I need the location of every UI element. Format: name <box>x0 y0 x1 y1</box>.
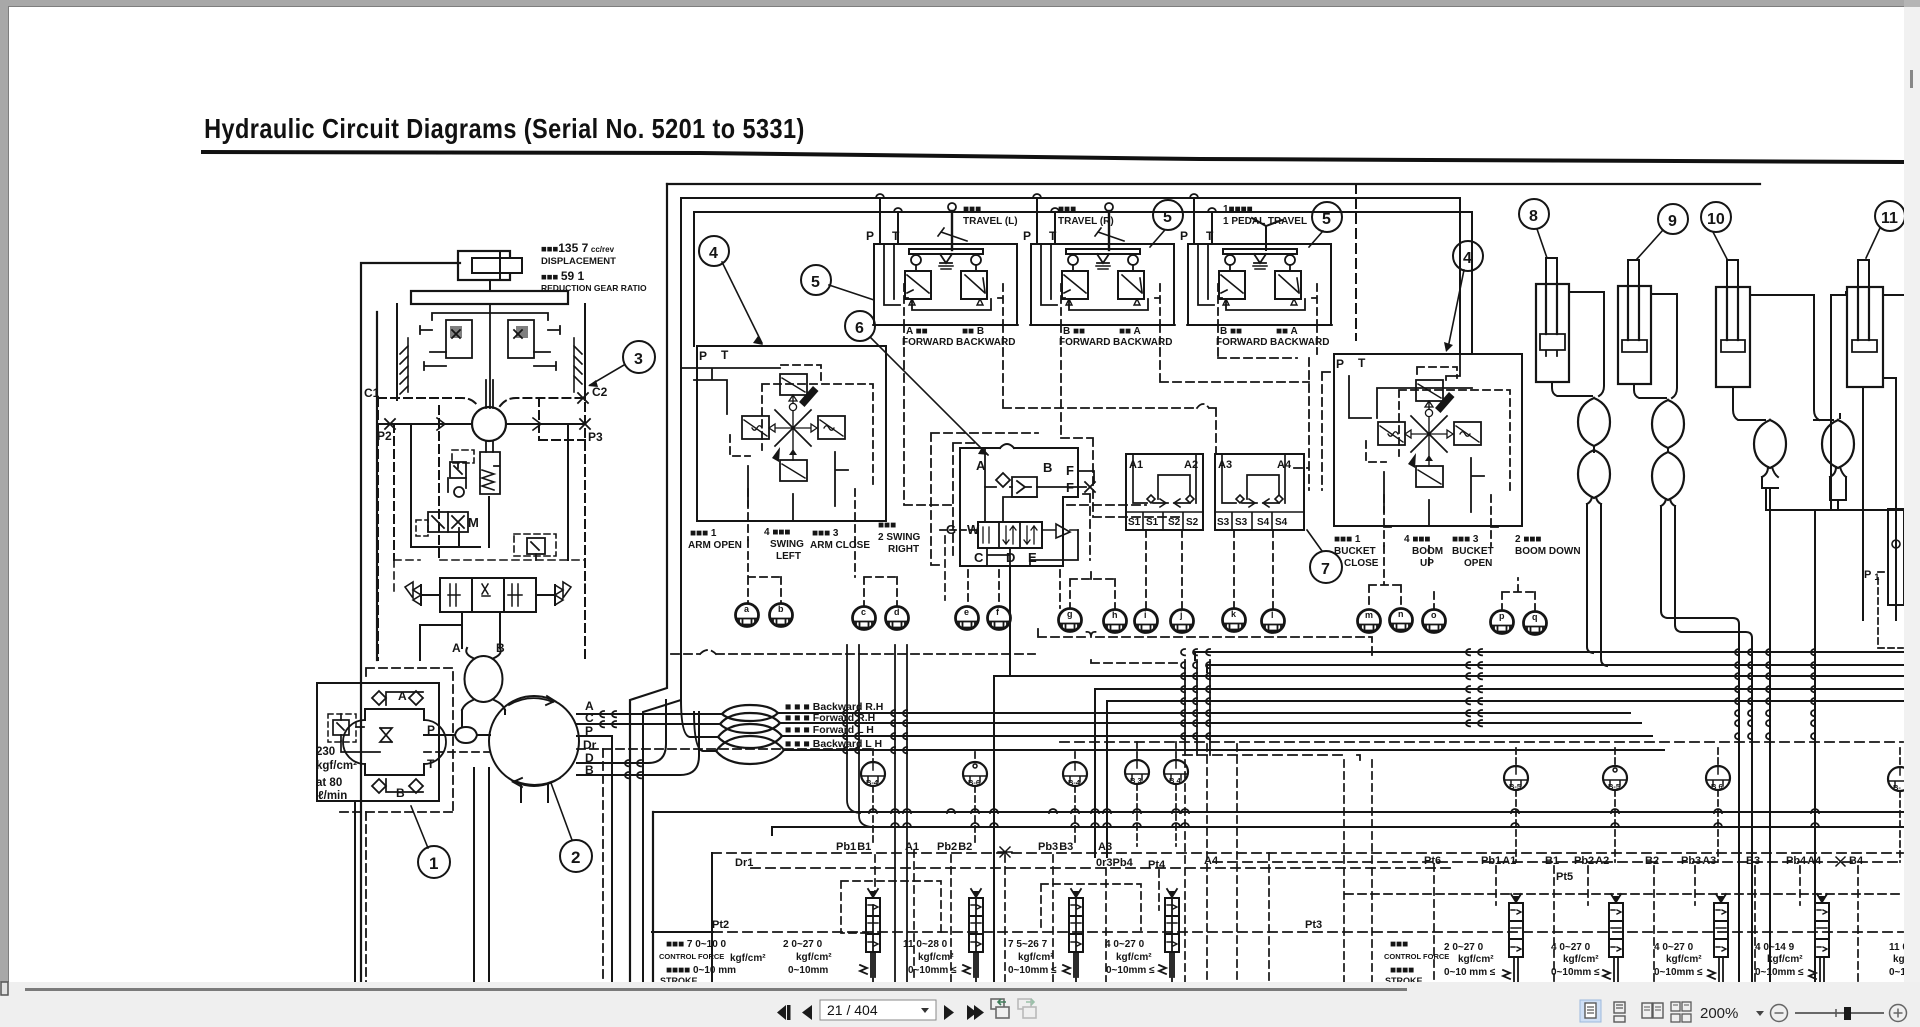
solenoid arrow <box>1042 524 1078 538</box>
cylinder 9 pipes <box>1634 294 1677 398</box>
coupler B-4a <box>861 762 885 787</box>
hose 9b <box>1652 452 1684 500</box>
hose 10 link <box>1762 467 1846 510</box>
balloon 11 <box>1866 201 1905 258</box>
swing motor M3 <box>472 407 506 441</box>
inner dashed rail <box>751 867 1450 869</box>
coupler c <box>853 607 876 630</box>
arm/swing pilot box <box>697 346 886 521</box>
dashed corner to item4 right <box>1355 184 1357 340</box>
coupler g <box>1059 609 1082 632</box>
shuttle box 2 <box>1215 454 1304 530</box>
hose 10a <box>1754 420 1786 468</box>
travel R mechanism <box>1062 249 1144 305</box>
travel R joystick <box>1108 211 1110 250</box>
S port cells box2 <box>1215 512 1304 530</box>
spec column 5 <box>1105 939 1155 976</box>
gear pump square <box>343 709 446 775</box>
swivel out labels <box>583 699 597 777</box>
column dashed drops right <box>1207 744 1903 982</box>
balloon 7 <box>1307 530 1322 551</box>
solenoid valve SV <box>428 512 468 538</box>
travel R dashed enclosure <box>1030 284 1175 348</box>
coupler k <box>1223 609 1246 632</box>
coupler drop wires a-b <box>748 540 781 603</box>
coupler n <box>1390 609 1413 632</box>
scrollbar corner box bottom-left <box>1 982 8 995</box>
continuous mode icon <box>1614 1002 1625 1022</box>
wire C forward RH <box>577 723 1641 724</box>
hose 9a <box>1652 400 1684 448</box>
cylinder 11 <box>1847 260 1883 387</box>
C D wires <box>987 548 1010 566</box>
bulge pump P <box>455 727 490 743</box>
bus wire 1 <box>1195 652 1903 660</box>
coupler o <box>1423 610 1446 633</box>
inner dashed enclosure <box>1366 367 1510 495</box>
coupler i <box>1135 610 1158 633</box>
A wire down <box>985 448 1037 522</box>
hose bulge A-B <box>462 648 505 710</box>
pilot route travel R A <box>1061 348 1182 517</box>
dashed enclosure right <box>1083 494 1090 560</box>
travel L mechanism <box>905 249 987 305</box>
label bucket close <box>1334 534 1379 569</box>
vertical feed W <box>1095 689 1107 857</box>
wire pump P out <box>424 734 455 736</box>
flow chevrons on P2-P3 <box>437 418 541 430</box>
lower dashed enclosure <box>1384 495 1501 546</box>
check valve <box>985 473 1012 487</box>
dashed vertical P2 <box>393 424 395 560</box>
throttle X <box>380 728 392 742</box>
row3 stubs <box>1516 748 1900 862</box>
mounting plate <box>411 291 568 304</box>
pedal travel box <box>1188 244 1331 325</box>
G dashed wire <box>940 529 978 531</box>
title: Hydraulic Circuit Diagrams (Serial No. 5201 to 5331) <box>203 114 1905 162</box>
coupler drop wires m-o <box>1369 546 1434 609</box>
pressure valve Pb3 <box>1063 889 1083 977</box>
right risers from cyl9 <box>1739 510 1770 982</box>
pressure valve right 4 <box>1809 894 1829 982</box>
zoom slider <box>1795 1012 1884 1014</box>
bus dashed drain <box>1060 741 1903 743</box>
dashed box pump relief <box>328 714 356 742</box>
balloon 4 right <box>1448 270 1464 348</box>
shuttle 2 internals <box>1222 454 1285 503</box>
pressure valve Pb1 <box>860 889 880 977</box>
prev page button <box>802 1005 812 1020</box>
coupler drop wires g-h <box>1070 570 1115 609</box>
hose 8b <box>1578 450 1610 498</box>
pilot feed wires <box>681 368 780 414</box>
vertical feed E dashed <box>1059 570 1061 608</box>
dashed rail lower right <box>1345 893 1903 895</box>
hose 8 link <box>1587 446 1607 666</box>
E wire <box>1030 530 1078 566</box>
label boom up <box>1404 534 1443 569</box>
pressure valve right 1 <box>1503 894 1523 982</box>
swivel arrow bottom <box>513 778 560 787</box>
spec column 4 <box>1008 939 1057 976</box>
solid vertical left inner <box>410 424 412 547</box>
aux relief valve <box>448 462 466 497</box>
hose lens C <box>720 713 780 733</box>
swivel circle <box>489 696 579 786</box>
balloon 8 <box>1519 199 1549 258</box>
coupler j <box>1171 610 1194 633</box>
bus wire 2 <box>1207 665 1903 672</box>
rail drop item4 left <box>681 198 694 346</box>
page number input box <box>820 1000 936 1020</box>
bus dashed lower <box>1183 755 1360 760</box>
hose lens FL <box>718 724 782 748</box>
P1 component right edge <box>1864 509 1904 648</box>
spec column r2 <box>1551 942 1600 978</box>
column dashed drops left <box>875 760 1185 982</box>
pilot route travel L A <box>904 348 1146 505</box>
shuttle 1 internals <box>1133 454 1196 503</box>
C2 cross mark <box>578 393 588 403</box>
horizontal scrollbar thumb <box>25 988 1407 991</box>
coupler bracket dashed row <box>1038 627 1372 663</box>
single page mode (active) <box>1580 1000 1601 1022</box>
balloon 10 <box>1701 202 1731 259</box>
coupler B-3 <box>1125 760 1149 785</box>
manifold box left edge <box>652 812 654 982</box>
swivel feed lines <box>462 710 505 726</box>
swivel arrow top <box>509 696 555 705</box>
displacement note text <box>541 241 647 293</box>
pedal mechanism <box>1219 249 1301 305</box>
facing continuous icon <box>1671 1002 1691 1022</box>
top connector C3a <box>458 251 522 280</box>
zoom out button <box>1771 1005 1788 1022</box>
row2 stubs <box>873 742 1176 846</box>
pump dashed box <box>340 668 453 812</box>
dashed pilot line C1-C2 <box>378 398 583 406</box>
lower dashed enclosure <box>748 489 865 540</box>
hatched wall right <box>574 338 582 392</box>
dashed vertical inner left <box>438 406 440 560</box>
label swing left <box>764 527 804 562</box>
balloon 5 (left, travel L) <box>801 265 874 300</box>
balloon 4 (left) <box>699 236 763 345</box>
label row rail right <box>1213 861 1903 863</box>
wire pump T dashed <box>424 751 489 753</box>
spec column r4 <box>1755 942 1804 978</box>
coupler B-6 <box>963 762 987 787</box>
wire drain bottom <box>411 497 489 547</box>
svg-text:21 / 404: 21 / 404 <box>827 1002 878 1018</box>
wire Dr dashed <box>577 748 873 750</box>
spec column 3 <box>903 939 957 976</box>
pedal name <box>1223 204 1307 227</box>
pilot cross mechanism <box>1378 380 1481 487</box>
wire A backward RH <box>577 713 1630 714</box>
bus wire 4 <box>1095 689 1903 696</box>
P2 cross mark <box>385 419 395 429</box>
spec column r5 <box>1889 942 1920 978</box>
pilot cross mechanism <box>742 374 845 481</box>
pedal port labels <box>1216 326 1329 348</box>
pilot route travel L B <box>1003 348 1216 454</box>
pedal dashed enclosure <box>1187 284 1332 348</box>
pressure valve Pb4 <box>1159 889 1179 977</box>
wire P down <box>577 736 612 982</box>
coupler q <box>1524 612 1547 635</box>
rail drop pedal travel <box>1194 198 1212 244</box>
rail drop travel R <box>1037 198 1055 244</box>
spool pilot dashes <box>394 560 585 595</box>
rail bumps <box>876 194 1216 212</box>
balloon 6 <box>845 311 989 455</box>
pedal lever <box>1252 218 1282 250</box>
left bundle verticals <box>355 768 489 982</box>
bottom wires <box>748 452 848 520</box>
dashed vertical inner right <box>539 398 585 440</box>
cylinder 10 <box>1716 260 1750 387</box>
coupler h <box>1104 610 1127 633</box>
dashed box make-up <box>514 534 556 556</box>
boom/bucket pilot box <box>1334 354 1522 526</box>
make-up relief right <box>527 538 545 560</box>
label bucket open <box>1452 534 1494 569</box>
label backward RH <box>785 701 883 750</box>
dashed box around aux relief <box>452 450 474 463</box>
hose 8a <box>1578 398 1610 446</box>
coupler drop wires p-q <box>1502 578 1535 611</box>
pump relief small <box>333 714 349 741</box>
bottom wires <box>1384 458 1484 526</box>
balloon 2 <box>551 783 592 872</box>
svg-text:200%: 200% <box>1700 1005 1738 1022</box>
cylinder 10 pipes <box>1733 292 1846 420</box>
coupler d <box>886 607 909 630</box>
travel R name <box>1058 204 1114 227</box>
cylinder 8 <box>1536 258 1569 382</box>
control force column right <box>1384 939 1449 986</box>
travel R box <box>1031 244 1174 325</box>
control force column left <box>659 939 766 986</box>
column solid drops left <box>873 645 1172 982</box>
pump outer box <box>317 683 439 801</box>
inner dashed enclosure <box>730 365 873 489</box>
pressure valve right 2 <box>1603 894 1623 982</box>
coupler B-5b <box>1603 766 1627 791</box>
pump spec text <box>316 746 357 802</box>
pump port diamonds <box>372 691 423 793</box>
pilot route pedal B <box>1218 348 1297 358</box>
coupler a <box>736 604 759 627</box>
label arm close <box>810 528 870 551</box>
label row right section <box>1204 855 1864 883</box>
motor drain relief cartridge <box>480 441 500 494</box>
motor shaft <box>486 380 493 408</box>
spec column r3 <box>1654 942 1703 978</box>
facing pages icon <box>1642 1003 1663 1018</box>
left bundle dashed verticals <box>366 749 603 982</box>
outer boundary top edge <box>667 183 1760 185</box>
label arm open <box>688 528 742 551</box>
port B forward label <box>1059 326 1172 348</box>
pedal internal pipes <box>1198 244 1305 310</box>
gear housing left wall <box>396 304 398 400</box>
coupler b <box>770 604 793 627</box>
coupler B-4b <box>1063 762 1087 787</box>
F wires <box>1037 471 1094 487</box>
solid vertical right inner <box>567 424 569 560</box>
swivel bottom stubs <box>521 784 548 802</box>
hose 9 link <box>1661 448 1752 755</box>
bus wire 3 <box>994 675 1903 677</box>
Pt rail <box>652 931 713 933</box>
Dr1 box edge <box>711 853 713 982</box>
pilot riser pair right of shuttle <box>1294 358 1332 490</box>
block 6 body <box>960 444 1078 566</box>
travel L internal pipes <box>884 244 991 310</box>
next page button <box>944 1005 954 1020</box>
dashed box around Pb1 valve <box>841 881 941 933</box>
F2 cross <box>1085 482 1095 492</box>
coupler f <box>988 607 1011 630</box>
hose 10b <box>1822 420 1854 468</box>
coupler B-6b <box>1706 766 1730 791</box>
label row left section <box>836 841 1166 871</box>
vertical scrollbar thumb <box>1910 70 1913 88</box>
label swing right <box>878 520 920 555</box>
rail drop travel L <box>880 198 898 244</box>
spec column r1 <box>1444 942 1496 978</box>
manifold second wire <box>772 827 1903 835</box>
label boom down <box>1515 534 1581 557</box>
P3 cross mark <box>580 419 590 429</box>
travel L box <box>874 244 1017 325</box>
coupler e <box>956 607 979 630</box>
G drop dashed <box>944 536 946 600</box>
wire P2-P3 line <box>377 423 585 425</box>
dashed box around Pb3 valve <box>1041 884 1141 930</box>
dashed enclosure left <box>931 433 1038 565</box>
S labels box1 <box>1128 517 1199 528</box>
port A forward label <box>902 326 1015 348</box>
cylinder 8 pipes <box>1552 292 1604 396</box>
spool <box>978 522 1042 548</box>
wire forward LH <box>681 700 1652 737</box>
label row dashed rail <box>712 852 1903 854</box>
pump internal wires <box>341 692 423 792</box>
dashed vertical P3/C2 <box>584 403 586 660</box>
last page button <box>967 1005 977 1020</box>
pressure valve Pb2 <box>963 889 983 977</box>
balloon 1 <box>411 806 450 878</box>
hatched wall left <box>400 338 408 394</box>
wire D staircase <box>577 700 666 763</box>
coupler B-5a <box>1504 766 1528 791</box>
outer boundary left edge <box>630 184 667 982</box>
spec column 2 <box>783 939 832 976</box>
wire backward LH <box>694 712 1664 751</box>
travel L joystick <box>951 211 953 250</box>
T supply rail <box>694 212 1472 354</box>
coupler drop wires c-d <box>855 540 897 606</box>
counterbalance spool valve <box>405 578 571 612</box>
manifold top wire <box>653 811 1903 813</box>
hose lens A <box>722 705 778 721</box>
cylinder 11 pipes <box>1831 295 1903 620</box>
wires valve to A/B <box>420 612 500 660</box>
vertical feed C <box>993 676 995 982</box>
balloon 3 <box>588 341 655 387</box>
bumps on manifold wires <box>869 809 1819 827</box>
P supply rail <box>681 198 1460 354</box>
vertical feed D <box>1009 566 1011 676</box>
dashed box solenoid <box>416 520 428 536</box>
coupler B-4c <box>1164 760 1188 785</box>
previous view icon <box>991 999 1009 1018</box>
balloon 9 <box>1637 204 1688 259</box>
crossing wiggles B1 risers <box>843 710 907 753</box>
inner boundary rail vertical <box>643 198 681 982</box>
pressure valve right 3 <box>1708 894 1728 982</box>
reduction gear train <box>420 304 560 408</box>
coupler p <box>1491 611 1514 634</box>
swing assembly outer line <box>361 263 460 982</box>
S port cells box1 <box>1126 512 1203 530</box>
coupler l <box>1262 610 1285 633</box>
bus wire 5 <box>1107 701 1903 708</box>
coupler drop wires e-f <box>968 570 999 606</box>
pilot route pedal A <box>1316 348 1318 354</box>
shuttle box 1 <box>1126 454 1203 530</box>
coupler B-7 <box>1888 767 1912 792</box>
travel L name <box>963 204 1018 227</box>
crossing wiggles left <box>600 711 641 778</box>
star mark right <box>1836 857 1845 866</box>
hose lens BL <box>716 736 784 764</box>
zoom dropdown caret <box>1756 1011 1764 1016</box>
zoom in button <box>1890 1005 1907 1022</box>
check arrow box <box>1012 477 1037 497</box>
travel R internal pipes <box>1041 244 1148 310</box>
balloon 5 pedal <box>1309 231 1323 247</box>
crossing wiggles bus <box>1181 649 1815 739</box>
pilot feed wires <box>1349 354 1472 418</box>
balloon 5 travel R <box>1150 231 1164 247</box>
coupler drop wires i-l <box>1146 530 1273 609</box>
long dashed rail left <box>671 650 1035 654</box>
gear housing right wall <box>584 304 586 400</box>
next view icon (disabled) <box>1018 999 1036 1018</box>
star mark <box>998 847 1012 857</box>
wire B staircase <box>577 712 699 775</box>
dashed vertical C1 <box>377 398 379 660</box>
S labels box2 <box>1217 517 1288 528</box>
wiggle verticals S <box>1185 660 1210 755</box>
cylinder group bottom wires <box>1766 500 1903 982</box>
cylinder 9 <box>1618 260 1651 384</box>
first page button <box>777 1005 984 1020</box>
coupler m <box>1358 610 1381 633</box>
pilot route travel R B <box>1160 348 1309 382</box>
B1 riser pair <box>847 645 872 827</box>
travel L dashed enclosure <box>873 284 1018 348</box>
